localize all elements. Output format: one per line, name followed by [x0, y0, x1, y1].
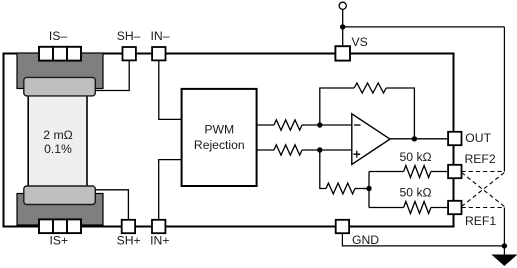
- wire plus node down to gain resistor: [320, 150, 326, 189]
- pin REF1: [448, 201, 461, 214]
- svg-text:0.1%: 0.1%: [44, 142, 72, 156]
- svg-text:REF2: REF2: [465, 152, 496, 166]
- wire PWM out to op-amp minus input: [257, 124, 274, 126]
- svg-text:GND: GND: [352, 233, 379, 247]
- svg-text:IN+: IN+: [150, 234, 169, 248]
- shunt bottom sense bar: [24, 186, 96, 205]
- op-amp plus sign: [353, 151, 360, 158]
- resistor R2 (plus input): [274, 145, 302, 155]
- pin OUT: [448, 132, 461, 145]
- junction dot plus input: [317, 147, 322, 152]
- resistor R1 (minus input): [274, 120, 302, 130]
- wire op-amp output to OUT pin: [390, 138, 448, 140]
- svg-text:VS: VS: [352, 35, 368, 49]
- GND stub wire: [342, 234, 504, 246]
- svg-text:IS–: IS–: [49, 29, 68, 43]
- shunt top sense bar: [24, 77, 96, 96]
- op-amp minus sign: [354, 124, 361, 126]
- resistor 50k REF2: [404, 166, 431, 178]
- svg-text:2 mΩ: 2 mΩ: [43, 128, 72, 142]
- wire to REF2 resistor: [369, 171, 404, 173]
- junction dot minus input: [317, 122, 322, 127]
- op-amp A1: [352, 114, 390, 165]
- svg-text:PWM: PWM: [204, 123, 234, 137]
- IS- terminal squares: [39, 47, 81, 61]
- resistor R_fb feedback: [354, 83, 386, 93]
- right rail upper segment: [503, 27, 505, 172]
- shunt resistor body 2 mOhm: [28, 85, 87, 195]
- svg-text:REF1: REF1: [465, 214, 496, 228]
- wire IN+ to PWM block: [159, 160, 182, 220]
- wire PWM out to op-amp plus input: [257, 149, 274, 151]
- wire SH+ to shunt bottom bar: [95, 190, 128, 220]
- svg-text:IN–: IN–: [151, 29, 170, 43]
- junction dot output node: [412, 136, 417, 141]
- pin REF2: [448, 165, 461, 178]
- svg-text:SH+: SH+: [117, 234, 141, 248]
- pin VS: [335, 46, 350, 60]
- junction dot VS: [340, 24, 345, 29]
- pin IN-: [152, 47, 165, 60]
- svg-text:Rejection: Rejection: [194, 138, 245, 152]
- shunt resistor top end cap: [17, 53, 103, 89]
- device boundary box: [4, 54, 454, 227]
- svg-text:50 kΩ: 50 kΩ: [400, 150, 432, 164]
- pin SH-: [123, 47, 136, 60]
- junction dot ground node: [502, 243, 507, 248]
- reference node vertical wire: [368, 172, 370, 208]
- svg-text:SH–: SH–: [117, 29, 141, 43]
- dashed REF option connections: [462, 172, 505, 208]
- resistor R3 (plus node to reference): [326, 183, 355, 194]
- ground arrow: [491, 255, 517, 267]
- pin SH+: [122, 220, 135, 233]
- svg-text:50 kΩ: 50 kΩ: [400, 186, 432, 200]
- svg-text:OUT: OUT: [465, 131, 491, 145]
- PWM Rejection block U1: [182, 89, 257, 186]
- resistor 50k REF1: [404, 202, 431, 214]
- svg-text:IS+: IS+: [49, 234, 68, 248]
- IS+ terminal squares: [39, 219, 81, 233]
- shunt resistor bottom end cap: [17, 194, 103, 226]
- right rail lower segment: [503, 208, 505, 256]
- wire to REF1 resistor: [369, 207, 404, 209]
- VS supply stem: [342, 9, 344, 47]
- pin IN+: [152, 220, 165, 233]
- wire SH- to shunt top bar: [95, 60, 129, 90]
- junction dot reference node: [366, 186, 371, 191]
- feedback loop wire: [320, 88, 354, 125]
- top rail wire to right: [343, 26, 505, 28]
- VS supply terminal circle: [339, 2, 346, 9]
- wire IN- to PWM block: [159, 60, 182, 119]
- pin GND: [336, 220, 349, 233]
